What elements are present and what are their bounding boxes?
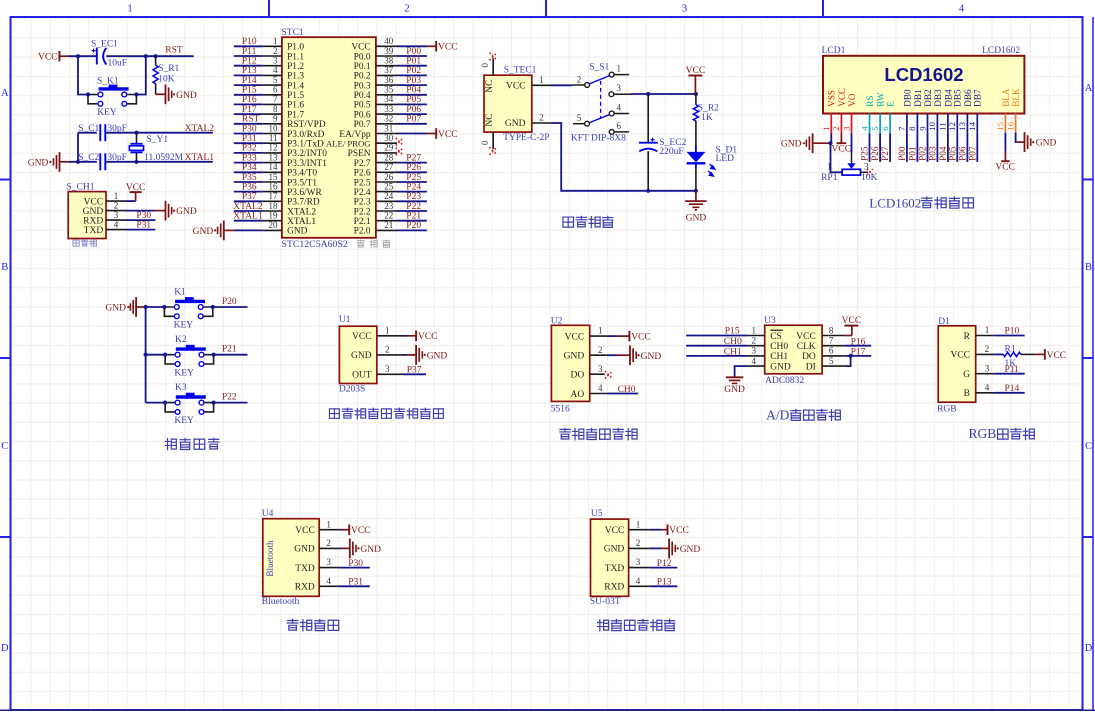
svg-text:GND: GND bbox=[360, 545, 381, 555]
comment 下载口 bbox=[73, 240, 79, 246]
wire STC1 pin 33 bbox=[397, 113, 427, 115]
svg-text:10: 10 bbox=[269, 123, 279, 133]
svg-text:P3.5/T1: P3.5/T1 bbox=[287, 178, 317, 188]
svg-text:P30: P30 bbox=[242, 124, 257, 134]
svg-text:P1.5: P1.5 bbox=[287, 91, 304, 101]
no-connect X pin 30 bbox=[396, 138, 404, 146]
junction LCD pin1/RP1 bbox=[828, 141, 832, 145]
svg-text:P3.4/T0: P3.4/T0 bbox=[287, 169, 317, 179]
junction S_R1 top bbox=[154, 54, 158, 58]
svg-text:1: 1 bbox=[616, 64, 621, 74]
svg-text:15: 15 bbox=[269, 172, 279, 182]
svg-text:2: 2 bbox=[273, 46, 278, 56]
svg-text:5: 5 bbox=[273, 75, 278, 85]
svg-text:GND: GND bbox=[287, 227, 308, 237]
svg-text:P17: P17 bbox=[242, 105, 257, 115]
wire K2 to P21 bbox=[214, 354, 248, 356]
wire U2 pin2 to GND bbox=[607, 354, 617, 356]
zone ticks left bbox=[0, 179, 11, 181]
svg-text:LCD1602: LCD1602 bbox=[869, 196, 921, 211]
wire STC1 pin 25 bbox=[397, 191, 427, 193]
svg-text:VCC: VCC bbox=[796, 332, 816, 342]
svg-text:C: C bbox=[1, 441, 8, 452]
svg-text:ALE/ PROG: ALE/ PROG bbox=[326, 139, 371, 149]
wire U3 pin1 (P15) bbox=[686, 335, 747, 337]
junction S_K1 right branch bbox=[144, 54, 148, 58]
svg-text:GND: GND bbox=[193, 227, 214, 237]
wire STC1 pin 32 bbox=[397, 123, 427, 125]
svg-text:LED: LED bbox=[716, 154, 735, 164]
svg-text:DI: DI bbox=[806, 362, 816, 372]
svg-text:DB3: DB3 bbox=[933, 89, 943, 107]
svg-text:VCC: VCC bbox=[950, 351, 970, 361]
led S_D1 bbox=[695, 146, 697, 152]
svg-text:36: 36 bbox=[384, 75, 394, 85]
svg-text:4: 4 bbox=[859, 126, 869, 131]
svg-text:D: D bbox=[1, 643, 9, 654]
svg-text:GND: GND bbox=[604, 545, 625, 555]
svg-text:GND: GND bbox=[176, 91, 197, 101]
svg-text:P34: P34 bbox=[242, 163, 257, 173]
power port VCC (download) bbox=[135, 192, 137, 201]
svg-text:14: 14 bbox=[269, 162, 279, 172]
wire GND to key bus bbox=[144, 306, 165, 308]
svg-text:25: 25 bbox=[384, 181, 394, 191]
no-connect X (S_TEC1 bottom) bbox=[489, 147, 497, 155]
svg-text:4: 4 bbox=[985, 382, 990, 392]
svg-text:VCC: VCC bbox=[669, 526, 689, 536]
svg-text:9: 9 bbox=[917, 126, 927, 131]
svg-text:P32: P32 bbox=[242, 144, 257, 154]
svg-text:P06: P06 bbox=[406, 105, 421, 115]
svg-text:VCC: VCC bbox=[605, 526, 625, 536]
svg-text:GND: GND bbox=[781, 140, 802, 150]
svg-text:K1: K1 bbox=[174, 287, 186, 297]
wire VCC to S_EC1 bbox=[68, 55, 96, 57]
svg-text:4: 4 bbox=[598, 383, 603, 393]
svg-text:6: 6 bbox=[829, 346, 834, 356]
svg-text:P14: P14 bbox=[1005, 384, 1020, 394]
svg-text:P05: P05 bbox=[948, 146, 958, 161]
svg-text:2: 2 bbox=[598, 345, 603, 355]
svg-text:P2.5: P2.5 bbox=[354, 178, 371, 188]
wire STC1 pin 17 bbox=[234, 200, 263, 202]
wire U4 pin3 (P30) bbox=[339, 567, 369, 569]
wire U2 pin1 to VCC bbox=[607, 335, 617, 337]
svg-text:1: 1 bbox=[985, 325, 990, 335]
svg-text:3: 3 bbox=[636, 557, 641, 567]
svg-text:P0.1: P0.1 bbox=[354, 62, 371, 72]
svg-text:3: 3 bbox=[841, 126, 851, 131]
svg-text:P25: P25 bbox=[861, 146, 871, 161]
svg-text:TYPE-C-2P: TYPE-C-2P bbox=[503, 133, 549, 143]
svg-text:P26: P26 bbox=[406, 163, 421, 173]
svg-text:39: 39 bbox=[384, 46, 394, 56]
svg-text:VCC: VCC bbox=[126, 183, 146, 193]
wire STC1 pin 13 bbox=[234, 162, 263, 164]
junction K3 left bbox=[163, 401, 167, 405]
svg-text:16: 16 bbox=[269, 181, 279, 191]
svg-text:A: A bbox=[1085, 83, 1093, 94]
S_TEC1 top pin 0 bbox=[492, 58, 494, 75]
svg-text:S_C2: S_C2 bbox=[78, 153, 99, 163]
wire switch pin3 to VCC rail bbox=[631, 93, 696, 95]
svg-text:13: 13 bbox=[957, 121, 967, 130]
wire STC1 pin 1 bbox=[234, 45, 263, 47]
svg-text:P37: P37 bbox=[407, 366, 422, 376]
wire U3 pin3 (CH1) bbox=[686, 355, 747, 357]
wire U1 pin2 to GND bbox=[404, 354, 408, 356]
svg-text:TXD: TXD bbox=[84, 226, 104, 236]
svg-text:LCD1: LCD1 bbox=[822, 46, 846, 56]
svg-text:1: 1 bbox=[326, 519, 331, 529]
wire STC1 pin 28 bbox=[397, 162, 427, 164]
wire crystal left vertical bbox=[77, 133, 79, 162]
svg-text:S_EC1: S_EC1 bbox=[91, 39, 118, 49]
ground (STC1 pin20) bbox=[224, 229, 234, 231]
wire bus to K2 bbox=[146, 354, 166, 356]
junction S_K1 right bbox=[134, 92, 138, 96]
svg-text:24: 24 bbox=[384, 191, 394, 201]
comment 单片机 bbox=[357, 240, 364, 247]
svg-text:1: 1 bbox=[636, 519, 641, 529]
svg-text:1: 1 bbox=[539, 75, 544, 85]
svg-text:27: 27 bbox=[384, 162, 394, 172]
wire STC1 pin 35 bbox=[397, 94, 427, 96]
wire STC1 pin 9 bbox=[234, 123, 263, 125]
svg-text:RST/VPD: RST/VPD bbox=[287, 120, 326, 130]
power port VCC (STC1 pin 31) bbox=[427, 133, 436, 135]
sheet bottom edge bbox=[0, 709, 1095, 711]
ground (U4) bbox=[342, 547, 350, 549]
svg-text:12: 12 bbox=[269, 143, 278, 153]
svg-text:VCC: VCC bbox=[832, 145, 852, 155]
svg-text:P06: P06 bbox=[958, 146, 968, 161]
key bus vertical bbox=[145, 307, 147, 403]
svg-text:TXD: TXD bbox=[605, 564, 625, 574]
svg-text:13: 13 bbox=[269, 152, 279, 162]
S_S1 pin 3 bbox=[609, 92, 614, 97]
caption 电源电路 bbox=[563, 217, 574, 227]
svg-text:P05: P05 bbox=[406, 95, 421, 105]
wire LCD pin16 to GND bbox=[1016, 133, 1017, 143]
wire STC1 pin 8 bbox=[234, 113, 263, 115]
svg-text:GND: GND bbox=[83, 207, 104, 217]
junction crystal top bbox=[134, 131, 138, 135]
svg-text:E: E bbox=[886, 101, 896, 107]
svg-text:P3.3/INT1: P3.3/INT1 bbox=[287, 159, 327, 169]
wire STC1 pin 21 bbox=[397, 229, 427, 231]
caption 语音识别模块 bbox=[598, 620, 609, 631]
wire STC1 pin 37 bbox=[397, 74, 427, 76]
no-connect X (S_TEC1 top) bbox=[489, 53, 497, 61]
svg-text:CH0: CH0 bbox=[724, 337, 742, 347]
svg-text:P0.3: P0.3 bbox=[354, 81, 371, 91]
svg-text:3: 3 bbox=[114, 210, 119, 220]
junction EC2 top bbox=[646, 92, 650, 96]
svg-text:2: 2 bbox=[831, 126, 841, 130]
wire S_CH1 pin4 (P31) bbox=[126, 229, 156, 231]
svg-text:P03: P03 bbox=[928, 146, 938, 161]
svg-text:A: A bbox=[1, 88, 9, 99]
wire LCD pin15 to VCC bbox=[1004, 133, 1006, 152]
no-connect X pin 29 bbox=[396, 148, 404, 156]
S_TEC1 pin 1 (VCC) bbox=[532, 84, 550, 86]
wire U5 pin1 to VCC bbox=[650, 529, 662, 531]
wire S_TEC1 pin1 to switch bbox=[550, 84, 573, 86]
svg-text:P36: P36 bbox=[242, 182, 257, 192]
svg-text:2: 2 bbox=[577, 75, 582, 85]
wire STC1 pin 40 to VCC bbox=[397, 45, 427, 47]
svg-text:1: 1 bbox=[821, 126, 831, 130]
svg-text:P00: P00 bbox=[898, 146, 908, 161]
wire LCD1 pin 7 bbox=[906, 133, 908, 162]
svg-text:3: 3 bbox=[385, 364, 390, 374]
svg-text:CH1: CH1 bbox=[724, 347, 742, 357]
wire LCD1 pin 9 bbox=[927, 133, 929, 162]
svg-text:DO: DO bbox=[802, 352, 816, 362]
S_S1 contact arm 5-4 bbox=[590, 115, 610, 123]
svg-text:2: 2 bbox=[326, 538, 331, 548]
svg-text:2: 2 bbox=[114, 200, 119, 210]
svg-text:P37: P37 bbox=[242, 192, 257, 202]
svg-text:3: 3 bbox=[752, 346, 757, 356]
wire U5 pin2 to GND bbox=[650, 547, 662, 549]
power port VCC (LCD pin2) bbox=[840, 133, 842, 143]
wire LCD1 pin 6 bbox=[889, 133, 891, 162]
svg-text:XTAL1: XTAL1 bbox=[185, 153, 215, 163]
svg-text:P31: P31 bbox=[348, 578, 363, 588]
svg-text:VCC: VCC bbox=[351, 43, 370, 53]
wire S_CH1 pin1 to VCC bbox=[126, 200, 136, 202]
svg-text:30: 30 bbox=[384, 133, 394, 143]
svg-text:CS: CS bbox=[770, 332, 782, 342]
svg-text:1: 1 bbox=[752, 325, 757, 335]
wire STC1 pin 4 bbox=[234, 74, 263, 76]
wire RST bbox=[156, 55, 194, 57]
wire K1 to P20 bbox=[213, 306, 248, 308]
wire S_K1 right branch bbox=[136, 56, 145, 94]
wire STC1 pin 31 to VCC bbox=[397, 133, 427, 135]
svg-text:P00: P00 bbox=[406, 47, 421, 57]
svg-text:STC12C5A60S2: STC12C5A60S2 bbox=[281, 239, 348, 250]
svg-text:BLA: BLA bbox=[1001, 88, 1011, 107]
svg-text:3: 3 bbox=[682, 4, 687, 15]
junction key bus row2 bbox=[144, 353, 148, 357]
svg-text:GND: GND bbox=[680, 545, 701, 555]
junction U3 DO/DI bbox=[849, 354, 853, 358]
svg-text:P2.1: P2.1 bbox=[354, 217, 371, 227]
ground (U3) bbox=[726, 376, 743, 378]
svg-text:CH0: CH0 bbox=[770, 342, 788, 352]
svg-text:4: 4 bbox=[959, 4, 965, 15]
svg-text:P35: P35 bbox=[242, 173, 257, 183]
svg-text:P26: P26 bbox=[871, 146, 881, 161]
S_S1 link (dashed) bbox=[600, 81, 602, 118]
no-connect X (U2 pin3) bbox=[605, 371, 613, 379]
wire left top corner to S_C1 bbox=[78, 132, 97, 134]
wire STC1 pin 18 bbox=[234, 210, 263, 212]
wire D1 pin2 to R1 bbox=[994, 353, 1003, 355]
svg-text:1K: 1K bbox=[701, 113, 713, 123]
junction K1 right bbox=[211, 305, 215, 309]
svg-text:P16: P16 bbox=[851, 337, 866, 347]
svg-text:VCC: VCC bbox=[995, 163, 1015, 173]
junction VCC/R2 top bbox=[694, 92, 698, 96]
svg-text:7: 7 bbox=[829, 336, 834, 346]
svg-text:S_S1: S_S1 bbox=[589, 62, 609, 72]
wire D1 pin3 (P11) bbox=[994, 373, 1024, 375]
svg-text:KEY: KEY bbox=[174, 368, 194, 378]
svg-text:LCD1602: LCD1602 bbox=[884, 64, 963, 85]
wire STC1 pin 16 bbox=[234, 191, 263, 193]
wire U3 pin4 to GND bbox=[735, 366, 748, 377]
wire STC1 pin20 to GND bbox=[234, 229, 263, 231]
wire STC1 pin 15 bbox=[234, 181, 263, 183]
wire S_C1 to XTAL2 bbox=[105, 132, 136, 134]
svg-text:GND: GND bbox=[105, 304, 126, 314]
zone ticks top bbox=[268, 0, 270, 17]
wire STC1 pin 34 bbox=[397, 103, 427, 105]
wire LCD1 pin 8 bbox=[916, 133, 918, 162]
svg-text:C: C bbox=[1085, 441, 1092, 452]
svg-text:9: 9 bbox=[273, 114, 278, 124]
junction EC2 bottom bbox=[646, 189, 650, 193]
svg-text:CLK: CLK bbox=[797, 342, 816, 352]
svg-text:VCC: VCC bbox=[506, 82, 526, 92]
svg-text:RXD: RXD bbox=[83, 216, 103, 226]
svg-text:P31: P31 bbox=[242, 134, 257, 144]
wire STC1 pin 7 bbox=[234, 103, 263, 105]
wire STC1 pin 12 bbox=[234, 152, 263, 154]
svg-text:2: 2 bbox=[385, 345, 390, 355]
svg-text:CH0: CH0 bbox=[618, 385, 636, 395]
svg-text:20: 20 bbox=[269, 220, 279, 230]
svg-text:NC: NC bbox=[485, 113, 495, 126]
svg-text:DB1: DB1 bbox=[913, 89, 923, 107]
wire S_CH1 pin2 to GND bbox=[126, 210, 156, 212]
svg-text:P1.1: P1.1 bbox=[287, 52, 304, 62]
svg-text:U4: U4 bbox=[262, 509, 274, 519]
svg-text:14: 14 bbox=[967, 121, 977, 130]
svg-text:P3.1/TxD: P3.1/TxD bbox=[287, 140, 324, 150]
ground (LCD right) bbox=[1017, 141, 1025, 143]
wire LCD1 pin 14 bbox=[976, 133, 978, 162]
ground (power circuit) bbox=[695, 191, 697, 201]
svg-text:DB0: DB0 bbox=[902, 89, 912, 107]
power port VCC (U1) bbox=[407, 335, 416, 337]
svg-text:11: 11 bbox=[269, 133, 278, 143]
svg-text:P1.6: P1.6 bbox=[287, 101, 304, 111]
svg-text:GND: GND bbox=[1036, 139, 1057, 149]
wire STC1 pin 38 bbox=[397, 65, 427, 67]
svg-text:P2.7: P2.7 bbox=[354, 159, 371, 169]
wire STC1 pin 10 bbox=[234, 133, 263, 135]
svg-text:2: 2 bbox=[636, 538, 641, 548]
wire XTAL1 bbox=[137, 161, 213, 163]
svg-text:DB2: DB2 bbox=[923, 89, 933, 107]
svg-text:CH1: CH1 bbox=[770, 352, 788, 362]
svg-text:GND: GND bbox=[176, 207, 197, 217]
svg-text:GND: GND bbox=[641, 352, 662, 362]
svg-text:1: 1 bbox=[598, 326, 603, 336]
svg-text:DB6: DB6 bbox=[963, 89, 973, 107]
wire U5 pin3 (P12) bbox=[650, 567, 678, 569]
svg-text:2: 2 bbox=[985, 344, 990, 354]
svg-text:37: 37 bbox=[384, 65, 394, 75]
svg-text:GND: GND bbox=[770, 362, 791, 372]
wire S_EC1 to RST node bbox=[106, 55, 155, 57]
svg-text:GND: GND bbox=[28, 158, 49, 168]
S_TEC1 bottom pin 0 bbox=[492, 132, 494, 149]
svg-text:P16: P16 bbox=[242, 95, 257, 105]
wire GND to XTAL1 rail bbox=[69, 161, 97, 163]
svg-text:7: 7 bbox=[897, 126, 907, 131]
svg-text:19: 19 bbox=[269, 211, 279, 221]
svg-text:Bluetooth: Bluetooth bbox=[262, 597, 300, 607]
svg-text:Bluetooth: Bluetooth bbox=[265, 540, 275, 577]
wire U3 DI loop bbox=[845, 356, 851, 366]
svg-text:23: 23 bbox=[384, 201, 394, 211]
svg-text:P21: P21 bbox=[222, 345, 237, 355]
wire U3 pin7 (P16) bbox=[845, 345, 872, 347]
wire GND rail to LED bbox=[648, 190, 696, 192]
power port VCC (U4) bbox=[342, 529, 350, 531]
ground (U5) bbox=[662, 547, 670, 549]
svg-text:32: 32 bbox=[384, 114, 393, 124]
svg-text:1: 1 bbox=[827, 162, 832, 172]
svg-text:P13: P13 bbox=[657, 578, 672, 588]
svg-text:P01: P01 bbox=[406, 57, 421, 67]
wire STC1 pin 22 bbox=[397, 220, 427, 222]
svg-text:4: 4 bbox=[114, 219, 119, 229]
svg-text:10: 10 bbox=[927, 121, 937, 130]
svg-text:K3: K3 bbox=[175, 383, 187, 393]
svg-text:S_Y1: S_Y1 bbox=[147, 135, 169, 145]
wire K3 to P22 bbox=[214, 402, 248, 404]
ground (download) bbox=[155, 210, 165, 212]
svg-text:1: 1 bbox=[385, 325, 390, 335]
svg-text:15: 15 bbox=[995, 121, 1005, 130]
svg-text:3: 3 bbox=[985, 363, 990, 373]
svg-text:P27: P27 bbox=[406, 153, 421, 163]
svg-text:29: 29 bbox=[384, 143, 394, 153]
svg-text:P0.5: P0.5 bbox=[354, 101, 371, 111]
svg-text:3: 3 bbox=[273, 56, 278, 66]
svg-text:5516: 5516 bbox=[551, 404, 570, 414]
svg-text:S_TEC1: S_TEC1 bbox=[504, 65, 537, 75]
svg-text:10uF: 10uF bbox=[108, 58, 128, 68]
svg-text:K2: K2 bbox=[175, 335, 187, 345]
svg-text:AO: AO bbox=[570, 390, 584, 400]
svg-text:P1.4: P1.4 bbox=[287, 81, 304, 91]
svg-text:DB7: DB7 bbox=[973, 89, 983, 107]
svg-text:VCC: VCC bbox=[565, 332, 585, 342]
wire STC1 pin 6 bbox=[234, 94, 263, 96]
junction K3 right bbox=[212, 401, 216, 405]
wire S_C2 to XTAL1 bbox=[105, 161, 136, 163]
svg-text:P07: P07 bbox=[968, 146, 978, 161]
svg-text:7: 7 bbox=[273, 94, 278, 104]
wire U2 pin4 (CH0) bbox=[607, 393, 638, 395]
wire STC1 pin 23 bbox=[397, 210, 427, 212]
wire R1 to VCC bbox=[1021, 353, 1035, 355]
svg-text:XTAL2: XTAL2 bbox=[233, 202, 263, 212]
wire U3 pin6 (P17) bbox=[845, 355, 872, 357]
wire junction down to RP1 pin1 bbox=[831, 143, 843, 172]
svg-text:18: 18 bbox=[269, 201, 279, 211]
resistor S_R1 10K bbox=[155, 56, 157, 65]
